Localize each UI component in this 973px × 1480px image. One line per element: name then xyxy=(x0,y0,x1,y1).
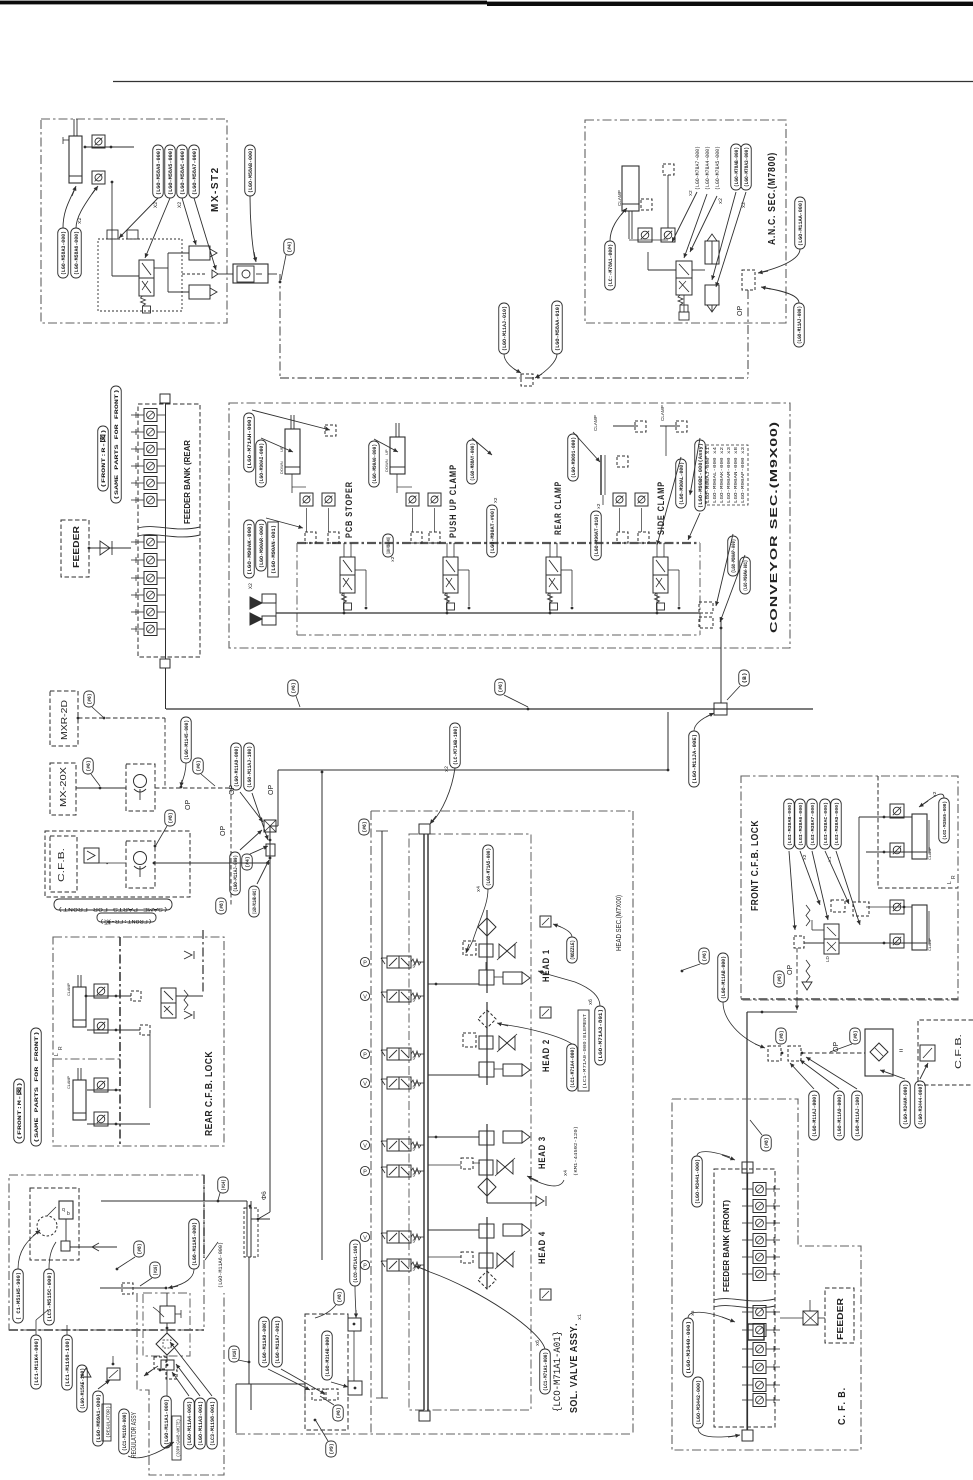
svg-text:(LGO-M88AY-000): (LGO-M88AY-000) xyxy=(470,443,476,481)
svg-text:=: = xyxy=(899,1048,903,1055)
svg-text:(LGO-M3441-000): (LGO-M3441-000) xyxy=(695,1159,701,1204)
svg-text:Φ6: Φ6 xyxy=(261,1191,268,1200)
svg-text:(LGO-M9091-000): (LGO-M9091-000) xyxy=(571,437,577,478)
svg-text:X2: X2 xyxy=(177,202,183,208)
svg-text:(#10): (#10) xyxy=(232,1349,238,1360)
svg-text:SOL. VALVE ASSY.: SOL. VALVE ASSY. xyxy=(569,1323,580,1413)
svg-text:CLAMP: CLAMP xyxy=(660,405,665,421)
svg-text:X2: X2 xyxy=(688,190,694,196)
svg-text:MX-20X: MX-20X xyxy=(58,767,68,807)
svg-text:CLAMP: CLAMP xyxy=(617,190,622,206)
svg-text:C.F.B.: C.F.B. xyxy=(953,1034,963,1069)
svg-text:P: P xyxy=(363,1169,367,1175)
svg-text:PUSH UP CLAMP: PUSH UP CLAMP xyxy=(448,464,459,538)
svg-text:(LGO-M90AR-000): (LGO-M90AR-000) xyxy=(259,523,265,568)
svg-text:(LGO-M90AK-000): (LGO-M90AK-000) xyxy=(247,523,253,575)
svg-text:(LGO-M58AC-000): (LGO-M58AC-000) xyxy=(180,148,186,195)
svg-text:(LGO-M90AW-001): (LGO-M90AW-001) xyxy=(743,560,749,591)
svg-text:V: V xyxy=(363,1081,367,1087)
svg-text:(#10): (#10) xyxy=(153,1265,159,1276)
svg-text:(LGO-M11AJ-000): (LGO-M11AJ-000) xyxy=(233,855,239,892)
svg-text:x6: x6 xyxy=(588,999,594,1005)
svg-text:(LGO-M58A6-000): (LGO-M58A6-000) xyxy=(74,231,80,275)
svg-text:R: R xyxy=(58,1046,64,1050)
svg-text:HEAD 3: HEAD 3 xyxy=(537,1136,548,1169)
svg-text:(LGO-M89A1-000): (LGO-M89A1-000) xyxy=(96,1394,102,1443)
svg-text:x2: x2 xyxy=(718,198,724,204)
svg-text:PCB STOPER: PCB STOPER xyxy=(344,481,355,538)
svg-text:x4: x4 xyxy=(476,886,482,892)
svg-text:OP: OP xyxy=(220,826,227,836)
svg-text:(LGO-M78A3-000): (LGO-M78A3-000) xyxy=(744,147,750,187)
svg-text:V: V xyxy=(363,994,367,1000)
svg-text:x4: x4 xyxy=(563,1170,569,1176)
svg-text:(LGO-M71AH-000): (LGO-M71AH-000) xyxy=(247,416,253,469)
svg-text:C.F.B.: C.F.B. xyxy=(56,848,66,882)
svg-text:P: P xyxy=(363,960,367,966)
svg-text:V: V xyxy=(363,1235,367,1241)
svg-text:(SAME PARTS FOR FRONT): (SAME PARTS FOR FRONT) xyxy=(58,906,168,912)
svg-text:q: q xyxy=(62,1207,65,1213)
svg-text:HEAD 1: HEAD 1 xyxy=(541,949,552,982)
svg-text:(LGO-M11AB-001): (LGO-M11AB-001) xyxy=(252,889,258,914)
svg-text:(LGO-M58A3-000): (LGO-M58A3-000) xyxy=(61,231,67,275)
svg-text:(#6): (#6) xyxy=(336,1408,342,1419)
svg-text:(LGO-M90BC-000(Assy): (LGO-M90BC-000(Assy) xyxy=(698,443,704,508)
svg-text:CLAMP: CLAMP xyxy=(67,1075,71,1089)
svg-text:x2: x2 xyxy=(596,503,602,509)
svg-text:FEEDER: FEEDER xyxy=(835,1298,845,1340)
svg-text:OP: OP xyxy=(268,785,275,795)
svg-text:OP: OP xyxy=(185,800,192,810)
svg-text:(LCO-M71A1-100): (LCO-M71A1-100) xyxy=(353,1243,359,1283)
svg-text:UP: UP xyxy=(384,449,389,455)
svg-text:(LGO-M90AP-000): (LGO-M90AP-000) xyxy=(731,539,737,573)
svg-text:x1: x1 xyxy=(577,1314,583,1320)
svg-text:(LGO-M11A9-000): (LGO-M11A9-000) xyxy=(837,1094,843,1137)
svg-text:(LGO-M58AB-000): (LGO-M58AB-000) xyxy=(248,148,254,193)
svg-text:(LGO-M88A2-#00): (LGO-M88A2-#00) xyxy=(386,537,392,554)
svg-text:(LGO-M11AJ-100): (LGO-M11AJ-100) xyxy=(855,1094,861,1137)
svg-text:(LGO-M78AB-000): (LGO-M78AB-000) xyxy=(734,147,740,187)
svg-text:b: b xyxy=(67,1211,70,1217)
svg-text:(LGO-M90A0-000): (LGO-M90A0-000) xyxy=(372,444,378,484)
svg-text:(LC1-M71A1-000): (LC1-M71A1-000) xyxy=(543,1352,549,1391)
svg-text:(LC1-M1168-100): (LC1-M1168-100) xyxy=(65,1338,71,1387)
svg-text:(LC1-M11K4-000): (LC1-M11K4-000) xyxy=(34,1338,40,1386)
svg-text:(#6): (#6) xyxy=(86,761,92,772)
svg-text:L: L xyxy=(947,881,953,884)
svg-text:HEAD 4: HEAD 4 xyxy=(537,1231,548,1264)
svg-text:x2: x2 xyxy=(444,766,450,772)
svg-text:LGO-M90AJ-000 x1: LGO-M90AJ-000 x1 xyxy=(705,447,711,503)
svg-text:(#9): (#9) xyxy=(329,1444,335,1455)
svg-text:LGO-M90AL-000 x4: LGO-M90AL-000 x4 xyxy=(712,447,718,503)
svg-text:REGULATOR ASSY: REGULATOR ASSY xyxy=(129,1412,138,1458)
svg-text:(LGO-M58A8-000): (LGO-M58A8-000) xyxy=(156,148,162,195)
svg-text:L: L xyxy=(54,1053,60,1056)
svg-text:(#6): (#6) xyxy=(196,761,202,772)
svg-text:(LGO-M34AM-000): (LGO-M34AM-000) xyxy=(903,1084,909,1125)
svg-text:(#4): (#4) xyxy=(245,857,251,868)
svg-text:(LGI-M38A5-000): (LGI-M38A5-000) xyxy=(942,801,948,840)
svg-text:CLAMP: CLAMP xyxy=(928,846,932,860)
svg-text:(LC-M71AB-100): (LC-M71AB-100) xyxy=(453,726,459,765)
svg-text:(LGO-M11AA-000): (LGO-M11AA-000) xyxy=(798,200,804,246)
svg-text:(LC:-M78A1-000): (LC:-M78A1-000) xyxy=(608,244,614,287)
svg-text:X2: X2 xyxy=(248,583,254,589)
svg-text:(#6): (#6) xyxy=(498,682,504,693)
svg-text:(FRONT:R-図): (FRONT:R-図) xyxy=(99,429,107,488)
svg-text:FRONT C.F.B. LOCK: FRONT C.F.B. LOCK xyxy=(750,820,761,911)
svg-text:DOWN: DOWN xyxy=(279,461,284,474)
svg-text:(LGO-M78A5-000): (LGO-M78A5-000) xyxy=(715,146,721,190)
svg-text:(LGO-M11AJ-010): (LGO-M11AJ-010) xyxy=(502,306,508,351)
svg-text:(LGO-M90AT-#00): (LGO-M90AT-#00) xyxy=(490,508,496,554)
svg-text:(LC3-M1198-001): (LC3-M1198-001) xyxy=(210,1401,216,1446)
svg-text:REAR C.F.B. LOCK: REAR C.F.B. LOCK xyxy=(204,1051,215,1136)
svg-text:P: P xyxy=(363,1263,367,1269)
svg-text:(LGO-M11A1-000): (LGO-M11A1-000) xyxy=(164,1399,170,1445)
svg-text:LGO-M90AP-000 x3: LGO-M90AP-000 x3 xyxy=(740,447,746,503)
svg-text:(LGI-M38A6-000): (LGI-M38A6-000) xyxy=(798,802,804,846)
svg-text:(LGO-M11A4-005): (LGO-M11A4-005) xyxy=(187,1401,193,1446)
svg-text:(B): (B) xyxy=(742,673,748,684)
svg-text:(#6): (#6) xyxy=(777,974,783,985)
svg-text:(LGO-M90AN-001): (LGO-M90AN-001) xyxy=(271,525,277,574)
svg-text:REAR CLAMP: REAR CLAMP xyxy=(553,481,564,535)
svg-text:(LGO-M11A7-001): (LGO-M11A7-001) xyxy=(275,1320,281,1364)
svg-text:(LGO-M11AJ-000): (LGO-M11AJ-000) xyxy=(797,306,803,344)
svg-text:(NOZZLE): (NOZZLE) xyxy=(570,940,576,960)
svg-text:(SAME PARTS FOR FRONT): (SAME PARTS FOR FRONT) xyxy=(34,1031,40,1143)
svg-text:LGO-M90AM-000 x3: LGO-M90AM-000 x3 xyxy=(726,447,732,503)
svg-text:(LGO-M11A5-000): (LGO-M11A5-000) xyxy=(192,1222,198,1266)
svg-text:MX-ST2: MX-ST2 xyxy=(210,166,221,212)
svg-text:(#14): (#14) xyxy=(221,1180,227,1191)
svg-text:(LC1-M11C0-000): (LC1-M11C0-000) xyxy=(122,1412,128,1451)
svg-text:(LGO-M3440-000): (LGO-M3440-000) xyxy=(686,1321,692,1374)
svg-text:(LGO-M58A5-000): (LGO-M58A5-000) xyxy=(168,148,174,195)
svg-text:(FRONT:M-図): (FRONT:M-図) xyxy=(16,1082,23,1140)
svg-text:LD: LD xyxy=(825,955,830,962)
svg-text:(#6): (#6) xyxy=(291,683,297,694)
svg-text:HEAD 2: HEAD 2 xyxy=(541,1039,552,1072)
svg-text:(#8): (#8) xyxy=(137,1244,143,1255)
svg-text:(LGO-M58AA-010): (LGO-M58AA-010) xyxy=(555,304,561,351)
svg-text:(LGO-M90AL-000): (LGO-M90AL-000) xyxy=(679,462,685,505)
svg-text:(LGO-M71A3-801): (LGO-M71A3-801) xyxy=(598,1009,604,1062)
svg-text:X2: X2 xyxy=(493,497,499,503)
svg-text:(LGO-M11A9-000): (LGO-M11A9-000) xyxy=(234,746,240,787)
svg-text:(LGI-M38AD-000): (LGI-M38AD-000) xyxy=(834,802,840,846)
svg-text:(LGO-M11AJ-000): (LGO-M11AJ-000) xyxy=(812,1094,818,1137)
svg-text:(SAME PARTS FOR FRONT): (SAME PARTS FOR FRONT) xyxy=(114,389,120,500)
svg-text:(LGO-M11A9-00K): (LGO-M11A9-00K) xyxy=(262,1320,268,1364)
svg-text:(LGO-M15AE-100): (LGO-M15AE-100) xyxy=(80,1368,86,1409)
svg-text:CLAMP: CLAMP xyxy=(928,937,932,951)
svg-text:(#8): (#8) xyxy=(168,813,174,824)
svg-text:HEAD SEC.(M7X00): HEAD SEC.(M7X00) xyxy=(616,895,623,951)
svg-text:(LGI-M38A7-000): (LGI-M38A7-000) xyxy=(810,802,816,846)
svg-text:(LGO-M3442-000): (LGO-M3442-000) xyxy=(696,1380,702,1425)
svg-text:CLAMP: CLAMP xyxy=(67,982,71,996)
svg-text:(#8): (#8) xyxy=(764,1138,770,1149)
svg-text:( C1-M51H5-900): ( C1-M51H5-900) xyxy=(16,1272,22,1320)
svg-text:(LGO-M11AJ-100): (LGO-M11AJ-100) xyxy=(247,746,253,788)
svg-text:(LC1-M71A4-000): (LC1-M71A4-000) xyxy=(570,1047,576,1088)
svg-text:(LC1-M71A0-000:ELEMENT: (LC1-M71A0-000:ELEMENT xyxy=(582,1014,588,1089)
svg-text:(KM1-44592-120): (KM1-44592-120) xyxy=(573,1126,579,1176)
svg-text:(#8): (#8) xyxy=(853,1031,859,1042)
svg-text:(LGO-M71A5-000): (LGO-M71A5-000) xyxy=(486,848,492,886)
svg-text:{LCO-M71A1-A01}: {LCO-M71A1-A01} xyxy=(552,1331,564,1412)
svg-text:R: R xyxy=(951,875,957,879)
svg-text:(LGO-M11AB-000): (LGO-M11AB-000) xyxy=(721,956,727,999)
svg-text:(LGO-M1145-000): (LGO-M1145-000) xyxy=(184,720,190,760)
svg-text:(LGI-M38AC-000): (LGI-M38AC-000) xyxy=(823,802,829,846)
svg-text:(#4): (#4) xyxy=(287,242,293,253)
svg-text:(LGO-M314B-000): (LGO-M314B-000) xyxy=(325,1334,331,1377)
svg-text:(REGULATOR): (REGULATOR) xyxy=(107,1406,112,1438)
svg-text:(#6): (#6) xyxy=(362,822,368,833)
svg-text:FEEDER BANK (FRONT): FEEDER BANK (FRONT) xyxy=(722,1200,731,1292)
svg-text:V: V xyxy=(363,1143,367,1149)
svg-text:x2: x2 xyxy=(390,556,396,562)
svg-text:MXR-2D: MXR-2D xyxy=(59,700,69,740)
svg-text:FEEDER: FEEDER xyxy=(71,526,81,568)
svg-text:A.N.C. SEC.(M7800): A.N.C. SEC.(M7800) xyxy=(767,152,778,245)
svg-text:(#8): (#8) xyxy=(219,901,225,912)
svg-text:(3OPM:GAAB-WHITE): (3OPM:GAAB-WHITE) xyxy=(177,1419,182,1457)
svg-text:(LGO-M78A4-000): (LGO-M78A4-000) xyxy=(705,146,711,190)
svg-text:DOWN: DOWN xyxy=(384,459,389,472)
svg-text:(LGO-M96AT-010): (LGO-M96AT-010) xyxy=(594,514,600,557)
svg-text:LGO-M90AK-000 x2: LGO-M90AK-000 x2 xyxy=(719,447,725,503)
svg-text:CONVEYOR SEC.(M9X00): CONVEYOR SEC.(M9X00) xyxy=(768,421,780,633)
svg-text:(#6): (#6) xyxy=(87,694,93,705)
svg-text:(LGO-M11A3-001): (LGO-M11A3-001) xyxy=(198,1401,204,1446)
svg-text:(LGO-M11A6-000): (LGO-M11A6-000) xyxy=(218,1242,224,1288)
svg-text:CLAMP: CLAMP xyxy=(593,415,598,431)
svg-text:(LGO-M90AI-000): (LGO-M90AI-000) xyxy=(259,443,265,484)
svg-text:(LGO-M3444-000): (LGO-M3444-000) xyxy=(918,1084,924,1125)
svg-text:(LC5-M515C-000): (LC5-M515C-000) xyxy=(47,1272,53,1322)
svg-text:OP: OP xyxy=(787,965,794,975)
svg-text:(#8): (#8) xyxy=(337,1292,343,1303)
svg-text:OP: OP xyxy=(737,306,744,316)
svg-text:(LGI-M38AB-000): (LGI-M38AB-000) xyxy=(787,802,793,846)
svg-text:(FRONT:FR-類): (FRONT:FR-類) xyxy=(100,918,152,925)
svg-text:(#6): (#6) xyxy=(702,951,708,962)
svg-text:(LGO-M58A7-000): (LGO-M58A7-000) xyxy=(192,148,198,195)
svg-text:P: P xyxy=(363,1052,367,1058)
svg-text:LGO-M90AN-000 x8: LGO-M90AN-000 x8 xyxy=(733,447,739,503)
svg-text:C. F. B.: C. F. B. xyxy=(837,1387,848,1425)
svg-text:FEEDER BANK (REAR: FEEDER BANK (REAR xyxy=(183,440,192,524)
svg-text:x6: x6 xyxy=(535,1340,541,1346)
svg-text:(LGO-M78A7-000): (LGO-M78A7-000) xyxy=(695,146,701,190)
svg-text:(#8): (#8) xyxy=(779,1031,785,1042)
svg-text:(LGO-M11JA-00E): (LGO-M11JA-00E) xyxy=(692,734,698,784)
